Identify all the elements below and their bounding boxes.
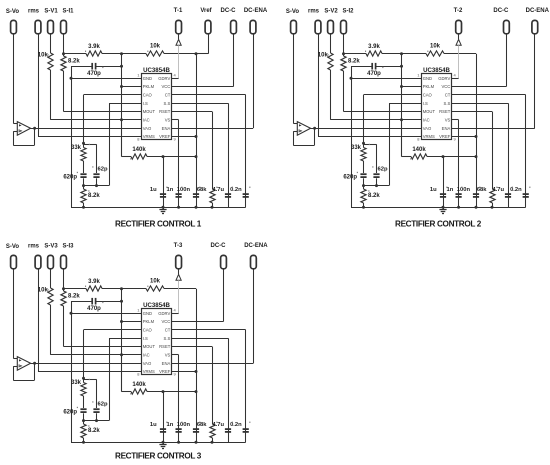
resistor 8.2k upper (2) (341, 56, 346, 71)
connector DC-C (3) (221, 255, 227, 268)
svg-text:33k: 33k (71, 380, 82, 386)
wire 3.9k row (2) (344, 53, 367, 55)
svg-text:62p: 62p (378, 166, 388, 172)
wire S-V3 to IAC pin (3) (51, 354, 142, 356)
svg-text:3.9k: 3.9k (368, 44, 380, 50)
resistor 140k (2) (411, 154, 427, 159)
node junction S-I feed / 3.9k (1) (62, 52, 65, 55)
wire S-Vo to op-amp + input (1) (13, 34, 15, 124)
node junction op-amp output (3) (33, 362, 36, 365)
capacitor 4.7u (3) (225, 428, 231, 430)
svg-text:620p: 620p (63, 174, 77, 180)
connector S-V3 (48, 255, 54, 268)
wire GDRV stub (1) (172, 78, 179, 80)
svg-text:1u: 1u (430, 187, 437, 193)
wire op-amp inverting input stub (3) (13, 366, 17, 368)
wire GND pin to left net (1) (71, 78, 142, 80)
svg-text:S.S: S.S (164, 336, 171, 341)
wire op-amp output to VAO pin (3) (31, 363, 142, 365)
capacitor 620p (2) (360, 173, 366, 175)
wire left ground vertical (3) (71, 301, 73, 442)
node junction 33k top (1) (82, 142, 85, 145)
svg-text:CT: CT (165, 93, 171, 98)
wire 3.9k row (1) (64, 53, 87, 55)
op-amp IC UC3854B U2 (422, 74, 452, 140)
wire op-amp feedback loop (3) (13, 367, 15, 380)
connector S-V2 (328, 20, 334, 33)
wire middle net vertical (1) (121, 54, 123, 157)
resistor 33k (1) (83, 143, 85, 147)
capacitor 100n (2) (473, 193, 479, 195)
driver arrow symbol (1) (176, 39, 181, 45)
wire 1u tap (3) (162, 390, 165, 393)
connector DC-ENA (2) (532, 20, 538, 33)
node junction middle net top (2) (400, 52, 403, 55)
wire S-I3 down through 8.2k (3) (63, 269, 65, 291)
svg-text:10k: 10k (430, 44, 441, 50)
wire 33k bottom to junction (1) (83, 178, 85, 189)
wire 62p branch (2) (364, 144, 377, 146)
capacitor 1n (1) (176, 193, 182, 195)
svg-text:470p: 470p (87, 71, 101, 77)
wire VCC to DC-C (1) (172, 86, 234, 88)
connector rms (1) (35, 20, 41, 33)
wire 62p branch (3) (84, 379, 97, 381)
node junction op-amp output (2) (313, 127, 316, 130)
pin number specks (3) (48, 289, 49, 290)
svg-text:10k: 10k (150, 44, 161, 50)
wire VS to 1n column (2) (452, 119, 459, 121)
svg-text:ENA: ENA (162, 126, 171, 131)
svg-text:DC-C: DC-C (221, 8, 237, 14)
connector rms (2) (315, 20, 321, 33)
node junction IAC row (1) (120, 118, 123, 121)
connector rms (3) (35, 255, 41, 268)
wire op-amp feedback loop (2) (293, 132, 295, 145)
resistor 33k (3) (83, 378, 85, 382)
svg-text:VCC: VCC (441, 84, 450, 89)
driver arrow symbol (2) (456, 39, 461, 45)
svg-text:140k: 140k (412, 147, 426, 153)
wire vref rail vertical (1) (196, 54, 198, 207)
ground symbol (2) (443, 207, 445, 210)
resistor 10k vertical (2) (328, 53, 333, 70)
capacitor 620p (3) (80, 408, 86, 410)
wire driver to GDRV pin (faint) (2) (458, 45, 460, 78)
svg-text:RECTIFIER CONTROL 1: RECTIFIER CONTROL 1 (115, 219, 202, 228)
wire CT to 0.2n column (2) (452, 94, 526, 96)
resistor 10k horizontal (1) (146, 51, 164, 56)
svg-text:IAC: IAC (143, 118, 150, 123)
connector S-Vo (3) (11, 255, 17, 268)
wire GND pin to left net (2) (351, 78, 422, 80)
svg-text:CT: CT (445, 93, 451, 98)
svg-text:DC-ENA: DC-ENA (526, 8, 550, 14)
svg-text:UC3854B: UC3854B (143, 67, 170, 74)
svg-text:10k: 10k (38, 288, 49, 294)
connector DC-C (1) (231, 20, 237, 33)
svg-text:RSET: RSET (159, 109, 171, 114)
wire S-V3 down through 10k (3) (50, 269, 52, 288)
svg-text:S-I3: S-I3 (62, 243, 74, 249)
node junction vref rail top (195, 52, 198, 55)
resistor 33k (2) (363, 143, 365, 147)
svg-text:VREF: VREF (159, 134, 171, 139)
svg-text:VCC: VCC (161, 319, 170, 324)
svg-text:33k: 33k (351, 145, 362, 151)
svg-text:MOUT: MOUT (143, 344, 156, 349)
op-amp buffer (1) (17, 122, 30, 136)
wire left ground vertical (1) (71, 66, 73, 207)
wire left ground vertical (2) (351, 66, 353, 207)
svg-text:CAO: CAO (143, 328, 153, 333)
capacitor 470p (1) (71, 66, 92, 68)
svg-text:10k: 10k (38, 53, 49, 59)
svg-text:UC3854B: UC3854B (143, 302, 170, 309)
capacitor 100n (1) (193, 193, 199, 195)
node junction vref/140k (1) (195, 155, 198, 158)
op-amp IC UC3854B U3 (142, 309, 172, 375)
node junction vref/140k (3) (195, 390, 198, 393)
node junction middle net top (1) (120, 52, 123, 55)
svg-text:68k: 68k (197, 187, 207, 193)
wire RSET to 68k column (1) (172, 111, 213, 113)
wire ENA to DC-ENA (1) (172, 128, 254, 130)
wire op-amp feedback loop (1) (13, 132, 15, 145)
wire PKLM pin (2) (402, 86, 422, 88)
svg-text:PKLM: PKLM (423, 84, 435, 89)
wire middle net vertical (2) (401, 54, 403, 157)
svg-text:S-I1: S-I1 (62, 8, 74, 14)
svg-text:S.S: S.S (164, 101, 171, 106)
resistor 140k (1) (131, 154, 147, 159)
svg-text:rms: rms (28, 8, 40, 14)
svg-text:S-Vo: S-Vo (286, 9, 300, 15)
svg-text:VAO: VAO (143, 126, 152, 131)
wire 33k bottom to junction (2) (363, 178, 365, 189)
svg-text:VREF: VREF (159, 369, 171, 374)
wire GDRV stub (2) (452, 78, 459, 80)
wire S-I2 to MOUT pin (2) (344, 111, 422, 113)
wire driver to GDRV pin (faint) (3) (178, 280, 180, 313)
svg-text:4.7u: 4.7u (212, 422, 224, 428)
wire VS to 1n column (1) (172, 119, 179, 121)
ground symbol (3) (163, 442, 165, 445)
svg-text:8.2k: 8.2k (88, 428, 100, 434)
svg-text:CAO: CAO (423, 93, 433, 98)
wire ENA to DC-ENA (2) (452, 128, 535, 130)
connector S-I1 (61, 20, 67, 33)
svg-text:VAO: VAO (423, 126, 432, 131)
connector S-Vo (2) (291, 20, 297, 33)
resistor 10k vertical (3) (48, 288, 53, 305)
wire Vref connector drop (196, 53, 208, 55)
wire S.S to 4.7u column (1) (172, 103, 229, 105)
wire S-Vo to op-amp + input (3) (13, 269, 15, 359)
capacitor 1u (3) (160, 428, 166, 430)
wire T-2 to driver arrow (2) (458, 34, 460, 39)
wire RSET to 68k column (2) (452, 111, 493, 113)
capacitor 0.2n (2) (523, 193, 529, 195)
wire ground rail (1) (71, 207, 246, 209)
svg-text:100n: 100n (177, 422, 191, 428)
svg-text:DC-ENA: DC-ENA (244, 243, 268, 249)
svg-text:620p: 620p (343, 174, 357, 180)
svg-text:ENA: ENA (162, 361, 171, 366)
svg-text:S.S: S.S (444, 101, 451, 106)
svg-text:8.2k: 8.2k (368, 193, 380, 199)
svg-text:4.7u: 4.7u (492, 187, 504, 193)
resistor 8.2k upper (3) (61, 291, 66, 306)
node junction 470p right (1) (120, 65, 123, 68)
svg-text:1n: 1n (167, 422, 174, 428)
connector T-1 (176, 20, 182, 33)
wire ground rail (2) (351, 207, 526, 209)
node junction S-I feed / 3.9k (2) (342, 52, 345, 55)
svg-text:CT: CT (165, 328, 171, 333)
wire VS to 1n column (3) (172, 354, 179, 356)
svg-text:RSET: RSET (439, 109, 451, 114)
resistor 3.9k (1) (86, 51, 102, 56)
node junction 33k top (3) (82, 377, 85, 380)
capacitor 100n (3) (193, 428, 199, 430)
svg-text:S-V1: S-V1 (44, 8, 58, 14)
wire op-amp inverting input stub (1) (13, 131, 17, 133)
capacitor 4.7u (2) (505, 193, 511, 195)
svg-text:620p: 620p (63, 409, 77, 415)
node junction S-I feed / 3.9k (3) (62, 287, 65, 290)
wire VCC to DC-C (3) (172, 321, 224, 323)
wire op-amp output to VAO pin (2) (311, 128, 422, 130)
wire S-V2 down through 10k (2) (330, 34, 332, 53)
ground symbol (1) (163, 207, 165, 210)
node junction vref/140k (2) (475, 155, 478, 158)
capacitor 1u (2) (440, 193, 446, 195)
svg-text:S-V3: S-V3 (44, 243, 58, 249)
wire 1u tap (1) (162, 155, 165, 158)
op-amp buffer (3) (17, 357, 30, 371)
svg-text:10k: 10k (318, 53, 329, 59)
svg-text:33k: 33k (71, 145, 82, 151)
wire CAO pin (2) (364, 94, 422, 96)
svg-text:140k: 140k (132, 382, 146, 388)
svg-text:3.9k: 3.9k (88, 44, 100, 50)
wire CAO pin (1) (84, 94, 142, 96)
resistor 8.2k lower (2) (361, 189, 366, 203)
wire rms to VRMS pin (1) (38, 34, 40, 137)
wire driver to GDRV pin (faint) (1) (178, 45, 180, 78)
svg-text:DC-C: DC-C (211, 243, 227, 249)
resistor 8.2k lower (1) (81, 189, 86, 203)
wire GDRV stub (3) (172, 313, 179, 315)
capacitor 1n (3) (176, 428, 182, 430)
svg-text:S-V2: S-V2 (324, 8, 338, 14)
capacitor 1n (2) (456, 193, 462, 195)
pin number specks (1) (48, 54, 49, 55)
connector Vref (205, 20, 211, 33)
wire op-amp output to VAO pin (1) (31, 128, 142, 130)
node junction 470p right (2) (400, 65, 403, 68)
wire VREF pin to vref rail (3) (172, 371, 197, 373)
capacitor 0.2n (1) (243, 193, 249, 195)
svg-text:S-Vo: S-Vo (6, 244, 20, 250)
node junction middle net top (3) (120, 287, 123, 290)
svg-text:DC-ENA: DC-ENA (244, 8, 268, 14)
wire ground rail (3) (71, 442, 246, 444)
connector S-I2 (341, 20, 347, 33)
svg-text:1n: 1n (447, 187, 454, 193)
resistor 10k vertical (1) (48, 53, 53, 70)
connector DC-ENA (1) (250, 20, 256, 33)
wire I.S pin (2) (389, 103, 422, 105)
svg-text:S-Vo: S-Vo (6, 9, 20, 15)
svg-text:4.7u: 4.7u (212, 187, 224, 193)
svg-text:1u: 1u (150, 422, 157, 428)
connector DC-C (2) (504, 20, 510, 33)
capacitor 62p (1) (93, 173, 99, 175)
wire S-I2 down through 8.2k (2) (343, 34, 345, 56)
resistor 68k (2) (490, 189, 495, 203)
svg-text:GND: GND (423, 76, 432, 81)
capacitor 62p (3) (93, 408, 99, 410)
svg-text:68k: 68k (197, 422, 207, 428)
node junction IAC row (2) (400, 118, 403, 121)
svg-text:UC3854B: UC3854B (423, 67, 450, 74)
wire rms to VRMS pin (3) (38, 269, 40, 372)
capacitor 0.2n (3) (243, 428, 249, 430)
connector T-2 (456, 20, 462, 33)
svg-text:I.S: I.S (143, 336, 148, 341)
capacitor 620p (1) (80, 173, 86, 175)
wire I.S pin (1) (109, 103, 142, 105)
resistor 3.9k (2) (366, 51, 382, 56)
svg-text:IAC: IAC (423, 118, 430, 123)
capacitor 470p (3) (71, 301, 92, 303)
wire 3.9k row (3) (64, 288, 87, 290)
wire middle net vertical (3) (121, 289, 123, 392)
svg-text:8.2k: 8.2k (68, 58, 80, 64)
resistor 10k horizontal (3) (146, 286, 164, 291)
wire I.S pin (3) (109, 338, 142, 340)
wire S-I1 down through 8.2k (1) (63, 34, 65, 56)
svg-text:3.9k: 3.9k (88, 279, 100, 285)
svg-text:IAC: IAC (143, 353, 150, 358)
svg-text:470p: 470p (87, 306, 101, 312)
connector S-V1 (48, 20, 54, 33)
wire IAC node down to 140k (1) (121, 120, 123, 157)
wire RSET to 68k column (3) (172, 346, 213, 348)
resistor 10k horizontal (2) (426, 51, 444, 56)
svg-text:1n: 1n (167, 187, 174, 193)
wire S.S to 4.7u column (2) (452, 103, 509, 105)
svg-text:10k: 10k (150, 279, 161, 285)
wire IAC node down to 140k (3) (121, 355, 123, 392)
svg-text:VRMS: VRMS (143, 369, 155, 374)
wire vref rail vertical (3) (196, 289, 198, 442)
connector T-3 (176, 255, 182, 268)
resistor 8.2k lower (3) (81, 424, 86, 438)
svg-text:VS: VS (165, 353, 171, 358)
svg-text:VAO: VAO (143, 361, 152, 366)
svg-text:rms: rms (28, 243, 40, 249)
svg-text:DC-C: DC-C (493, 8, 509, 14)
svg-text:VS: VS (445, 118, 451, 123)
svg-text:62p: 62p (98, 166, 108, 172)
connector S-Vo (1) (11, 20, 17, 33)
wire 62p branch (1) (84, 144, 97, 146)
svg-text:GDRV: GDRV (158, 311, 170, 316)
wire CAO pin (3) (84, 329, 142, 331)
svg-text:CAO: CAO (143, 93, 153, 98)
op-amp buffer (2) (297, 122, 310, 136)
svg-text:62p: 62p (98, 401, 108, 407)
svg-text:VCC: VCC (161, 84, 170, 89)
capacitor 62p (2) (373, 173, 379, 175)
svg-text:RECTIFIER CONTROL 2: RECTIFIER CONTROL 2 (395, 219, 482, 228)
wire rms to VRMS pin (2) (318, 34, 320, 137)
wire S-I3 to MOUT pin (3) (64, 346, 142, 348)
svg-text:T-3: T-3 (174, 243, 183, 249)
wire VREF pin to vref rail (1) (172, 136, 197, 138)
svg-text:1u: 1u (150, 187, 157, 193)
wire S-Vo to op-amp + input (2) (293, 34, 295, 124)
svg-text:I.S: I.S (423, 101, 428, 106)
resistor 68k (3) (210, 424, 215, 438)
wire GND pin to left net (3) (71, 313, 142, 315)
svg-text:MOUT: MOUT (423, 109, 436, 114)
svg-text:I.S: I.S (143, 101, 148, 106)
capacitor 1u (1) (160, 193, 166, 195)
wire S-V1 to IAC pin (1) (51, 119, 142, 121)
svg-text:GND: GND (143, 311, 152, 316)
node junction 33k top (2) (362, 142, 365, 145)
wire T-1 to driver arrow (1) (178, 34, 180, 39)
svg-text:PKLM: PKLM (143, 84, 155, 89)
svg-text:VS: VS (165, 118, 171, 123)
svg-text:Vref: Vref (200, 8, 212, 14)
op-amp IC UC3854B U1 (142, 74, 172, 140)
svg-text:GDRV: GDRV (438, 76, 450, 81)
wire ENA to DC-ENA (3) (172, 363, 254, 365)
svg-text:140k: 140k (132, 147, 146, 153)
svg-text:ENA: ENA (442, 126, 451, 131)
svg-text:VRMS: VRMS (423, 134, 435, 139)
svg-text:8.2k: 8.2k (88, 193, 100, 199)
svg-text:VREF: VREF (439, 134, 451, 139)
wire 33k bottom to junction (3) (83, 413, 85, 424)
capacitor 4.7u (1) (225, 193, 231, 195)
wire S-V2 to IAC pin (2) (331, 119, 422, 121)
node junction op-amp output (1) (33, 127, 36, 130)
svg-text:100n: 100n (177, 187, 191, 193)
resistor 3.9k (3) (86, 286, 102, 291)
capacitor 470p (2) (351, 66, 372, 68)
resistor 140k (3) (131, 389, 147, 394)
svg-text:100n: 100n (457, 187, 471, 193)
wire T-3 to driver arrow (3) (178, 269, 180, 274)
connector S-I3 (61, 255, 67, 268)
svg-text:470p: 470p (367, 71, 381, 77)
wire CT to 0.2n column (1) (172, 94, 246, 96)
svg-text:68k: 68k (477, 187, 487, 193)
wire S-V1 down through 10k (1) (50, 34, 52, 53)
node junction 470p right (3) (120, 300, 123, 303)
wire 1u tap (2) (442, 155, 445, 158)
wire CT to 0.2n column (3) (172, 329, 246, 331)
svg-text:GDRV: GDRV (158, 76, 170, 81)
resistor 8.2k upper (1) (61, 56, 66, 71)
svg-text:MOUT: MOUT (143, 109, 156, 114)
